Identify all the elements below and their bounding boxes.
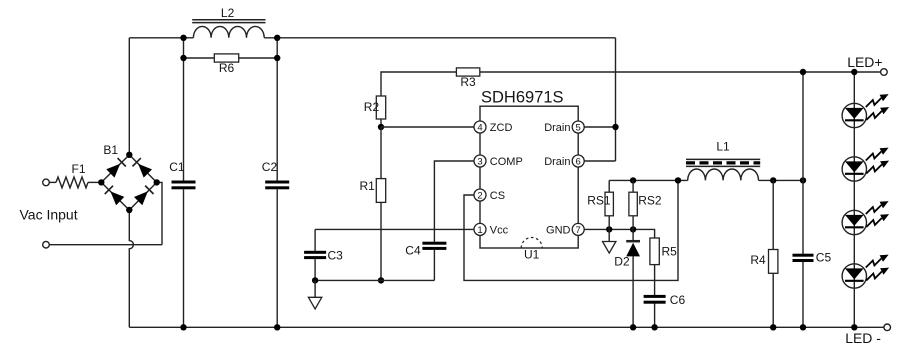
- terminal Vac neutral input: [43, 241, 50, 248]
- capacitor C6: [644, 295, 666, 298]
- pin 5 circle: [572, 121, 584, 133]
- diode D2 cathode bar: [626, 240, 640, 243]
- inductor L2 winding: [193, 26, 264, 37]
- wire ground stub: [314, 280, 316, 297]
- svg-text:2: 2: [477, 190, 482, 201]
- svg-text:1: 1: [477, 225, 482, 236]
- resistor R2: [376, 96, 385, 119]
- wire Vcc lead from pin 1 to C3: [315, 228, 474, 230]
- node C6 bus junction: [651, 324, 657, 330]
- wire R4 top lead: [772, 180, 774, 249]
- node ZCD junction: [378, 124, 384, 130]
- wire F1 left lead: [49, 181, 56, 183]
- node LED string top junction: [851, 69, 857, 75]
- svg-text:L2: L2: [221, 6, 235, 20]
- svg-text:7: 7: [576, 225, 581, 236]
- wire R3 to LED+ rail: [480, 71, 884, 73]
- svg-text:Drain: Drain: [544, 156, 570, 168]
- pin 4 circle: [474, 121, 486, 133]
- wire C4 bottom lead: [433, 250, 435, 281]
- diode bridge top-right (R to T): [138, 164, 152, 178]
- svg-text:R2: R2: [364, 100, 380, 114]
- node R6 right junction: [274, 55, 280, 61]
- wire bridge edge bottom-left: [101, 182, 129, 210]
- node LED+ rail junction: [800, 69, 806, 75]
- wire R1 bottom lead: [380, 202, 382, 280]
- svg-text:ZCD: ZCD: [490, 122, 513, 134]
- wire analog ground rail: [315, 279, 434, 281]
- wire C3 bottom lead: [314, 259, 316, 281]
- svg-text:C6: C6: [670, 293, 686, 307]
- wire D2 anode to bus: [632, 256, 634, 327]
- resistor R3: [456, 68, 479, 76]
- wire bridge DC+ vertical: [128, 38, 130, 155]
- node R4 bus junction: [770, 324, 776, 330]
- svg-text:GND: GND: [546, 224, 571, 236]
- node R6 left junction: [180, 55, 186, 61]
- wire drain vertical from top rail down to Drain pins: [615, 38, 617, 161]
- node bridge left: [98, 179, 104, 185]
- svg-text:D2: D2: [614, 254, 630, 268]
- resistor R4: [769, 250, 778, 274]
- svg-text:Drain: Drain: [544, 122, 570, 134]
- node bridge right: [154, 179, 160, 185]
- capacitor C2: [265, 181, 289, 184]
- capacitor C1: [172, 181, 196, 184]
- svg-text:U1: U1: [524, 248, 540, 262]
- node Drain junction: [612, 124, 618, 130]
- pin 2 circle: [474, 189, 486, 201]
- wire R5 to C6: [654, 265, 656, 296]
- wire RS1 top lead: [608, 180, 610, 192]
- diode bridge top-left (L to T): [106, 164, 120, 178]
- inductor L1 core dashed: [686, 161, 760, 164]
- node CS sense junction: [675, 177, 681, 183]
- svg-text:C4: C4: [405, 243, 421, 257]
- wire CS lead from pin 2 to sense node: [464, 180, 678, 280]
- svg-text:R1: R1: [360, 179, 376, 193]
- resistor R5: [650, 238, 659, 265]
- svg-text:B1: B1: [103, 143, 118, 157]
- wire bridge edge bottom-right: [129, 182, 156, 210]
- wire top rail left of L2: [129, 37, 193, 39]
- wire GND pin7 lead: [584, 229, 654, 238]
- wire bridge edge top-right: [129, 155, 156, 183]
- svg-text:R4: R4: [750, 253, 766, 267]
- LED D3 in string: [842, 94, 889, 128]
- svg-text:F1: F1: [72, 162, 86, 176]
- svg-text:CS: CS: [490, 190, 505, 202]
- terminal LED-: [884, 324, 891, 331]
- wire R6 right lead: [239, 57, 278, 59]
- svg-text:Vcc: Vcc: [490, 224, 509, 236]
- svg-text:C5: C5: [816, 250, 832, 264]
- wire C5 top lead: [802, 180, 804, 254]
- wire R1 top lead: [380, 127, 382, 179]
- wire Vac return: [49, 244, 162, 246]
- node R4 top junction: [770, 177, 776, 183]
- fuse F1 zigzag: [56, 177, 88, 188]
- svg-text:C1: C1: [169, 160, 185, 174]
- resistor RS2: [629, 192, 637, 216]
- svg-text:LED -: LED -: [845, 330, 881, 346]
- svg-text:COMP: COMP: [490, 156, 523, 168]
- inductor L1 winding: [688, 169, 759, 180]
- wire R6 left lead: [184, 57, 215, 59]
- node L2 left top junction: [180, 35, 186, 41]
- node bridge top: [126, 152, 132, 158]
- wire F1 right lead: [88, 181, 101, 183]
- wire LED+ to L1 output vertical: [802, 72, 804, 180]
- node RS2 bottom junction: [630, 226, 636, 232]
- wire bridge edge top-left: [101, 155, 129, 183]
- wire C3 top lead: [314, 229, 316, 251]
- inductor L1 core line upper: [686, 158, 760, 160]
- svg-text:R6: R6: [219, 61, 235, 75]
- node D2 bus junction: [630, 324, 636, 330]
- terminal LED+: [881, 69, 888, 76]
- node C5 bus junction: [800, 324, 806, 330]
- svg-text:C2: C2: [262, 160, 278, 174]
- wire L1 output: [759, 179, 804, 181]
- inductor L2 core lines: [192, 19, 265, 21]
- diode D2 body: [626, 243, 640, 257]
- IC U1 body SDH6971S: [480, 106, 578, 248]
- wire R2 bottom to ZCD junction: [380, 119, 382, 127]
- pin 1 circle: [474, 223, 486, 235]
- inductor L1 core line lower: [686, 165, 760, 167]
- svg-text:R5: R5: [662, 244, 678, 258]
- capacitor C3: [304, 251, 326, 254]
- wire bridge AC2 stub: [157, 182, 162, 244]
- pin 3 circle: [474, 155, 486, 167]
- svg-text:3: 3: [477, 156, 482, 167]
- node R1 ground junction: [378, 277, 384, 283]
- terminal Vac line input: [43, 179, 50, 186]
- IC U1 bottom notch: [521, 238, 542, 249]
- resistor R1: [376, 179, 385, 203]
- pin 6 circle: [572, 155, 584, 167]
- svg-text:Vac Input: Vac Input: [20, 207, 78, 223]
- node L2 right top junction: [274, 35, 280, 41]
- wire L2 left column down to C1 and bus: [183, 38, 185, 181]
- capacitor C5: [793, 254, 814, 257]
- wire RS2 top lead: [632, 180, 634, 192]
- wire R2 top lead to R3: [381, 72, 456, 96]
- diode bridge bottom-left (B to L): [110, 191, 124, 205]
- wire COMP lead from pin 3 to C4: [434, 161, 474, 242]
- node C2 bus junction: [274, 324, 280, 330]
- wire top rail right of L2: [264, 37, 615, 39]
- node C1 bus junction: [180, 324, 186, 330]
- node RS1 bottom junction: [606, 226, 612, 232]
- wire pin5 Drain stub: [584, 126, 615, 128]
- wire C6 to bus: [654, 304, 656, 328]
- svg-text:C3: C3: [328, 248, 344, 262]
- svg-text:RS2: RS2: [638, 194, 662, 208]
- wire C5 bottom lead: [802, 262, 804, 328]
- node C5 top junction: [800, 177, 806, 183]
- diode bridge bottom-right (B to R): [134, 191, 148, 205]
- svg-text:SDH6971S: SDH6971S: [481, 88, 564, 106]
- node RS2 top junction: [630, 177, 636, 183]
- wire L2 right column down to C2 and bus: [276, 38, 278, 181]
- svg-text:L1: L1: [716, 139, 730, 153]
- wire RS2 bottom lead: [632, 216, 634, 230]
- wire ZCD lead to pin 4: [381, 126, 474, 128]
- wire bridge DC- vertical with hop: [129, 210, 133, 327]
- ground symbol analog: [308, 297, 321, 309]
- svg-text:R3: R3: [460, 75, 476, 89]
- svg-text:5: 5: [576, 122, 581, 133]
- LED D6 in string: [842, 255, 889, 289]
- wire pin6 Drain stub: [584, 160, 615, 162]
- resistor RS1: [605, 192, 613, 216]
- node C3 ground junction: [312, 277, 318, 283]
- LED D4 in string: [842, 148, 889, 182]
- wire R4 bottom lead: [772, 273, 774, 327]
- wire RS1 bottom lead: [608, 216, 610, 230]
- resistor R6: [214, 54, 238, 62]
- pin 7 circle: [572, 223, 584, 235]
- svg-text:LED+: LED+: [847, 54, 882, 70]
- svg-text:4: 4: [477, 122, 482, 133]
- svg-text:6: 6: [576, 156, 581, 167]
- node LED string bottom junction: [851, 324, 857, 330]
- node bridge bottom: [126, 207, 132, 213]
- wire bottom bus LED- rail: [129, 326, 884, 328]
- wire power ground stub: [608, 229, 610, 241]
- ground symbol power: [603, 242, 616, 254]
- LED D5 in string: [842, 201, 889, 235]
- svg-text:RS1: RS1: [587, 194, 611, 208]
- wire sense node rail: [609, 179, 688, 181]
- wire D2 cathode stub: [632, 229, 634, 241]
- capacitor C4: [422, 242, 446, 245]
- wire LED string: [853, 72, 855, 327]
